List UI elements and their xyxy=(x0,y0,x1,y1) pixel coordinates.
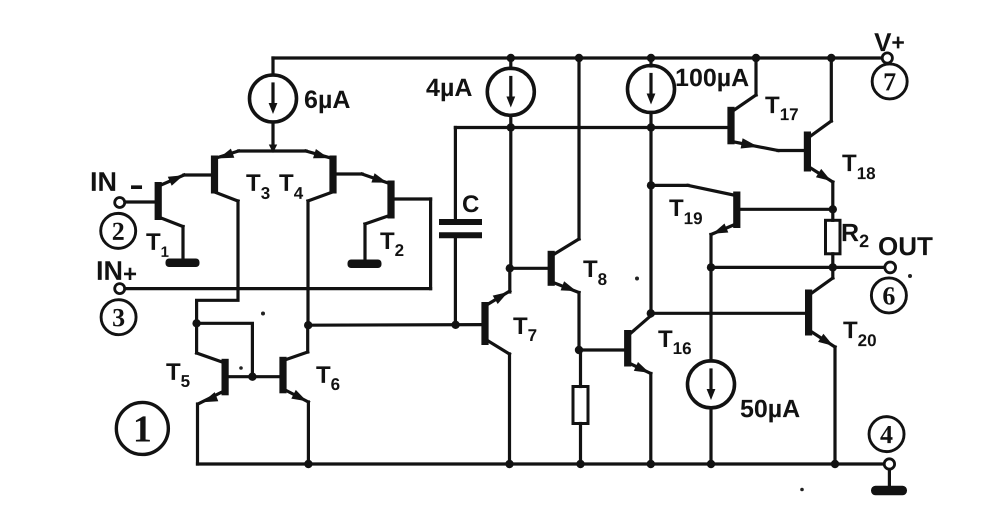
svg-text:6µA: 6µA xyxy=(304,86,350,114)
terminal OUT pin 6 xyxy=(885,262,896,273)
wire diff-pair tail xyxy=(215,151,333,159)
svg-text:T6: T6 xyxy=(316,362,340,394)
node 100uA / T19 collector xyxy=(647,181,655,189)
speck xyxy=(261,312,265,316)
node T8 emitter / T16 base / R xyxy=(575,346,583,354)
speck xyxy=(239,366,243,370)
svg-text:IN: IN xyxy=(90,167,117,197)
node T17 collector on V+ rail xyxy=(752,54,760,62)
transistor T6 xyxy=(279,325,308,464)
wire mid rail to T17 base xyxy=(455,126,727,129)
transistor T18 xyxy=(804,58,833,220)
svg-text:3: 3 xyxy=(112,303,125,332)
wire T2 base to IN+ xyxy=(429,199,432,289)
svg-text:V+: V+ xyxy=(874,27,905,57)
capacitor C xyxy=(442,128,479,325)
node T5 collector junction xyxy=(192,319,200,327)
svg-text:T16: T16 xyxy=(658,326,692,358)
ground at T1 collector xyxy=(166,259,200,268)
node T8 collector on V+ rail xyxy=(575,54,583,62)
svg-text:50µA: 50µA xyxy=(740,395,800,423)
svg-text:6: 6 xyxy=(882,281,895,310)
transistor T5 xyxy=(197,323,280,464)
speck xyxy=(908,274,912,278)
svg-text:T19: T19 xyxy=(669,195,703,228)
svg-text:4µA: 4µA xyxy=(426,74,472,102)
svg-text:T18: T18 xyxy=(842,150,876,183)
node T18 collector on V+ rail xyxy=(827,54,835,62)
resistor (T8 emitter) xyxy=(573,350,588,464)
node T6 collector junction xyxy=(304,321,312,329)
transistor T7 xyxy=(481,268,509,464)
svg-text:4: 4 xyxy=(880,420,893,449)
node T7 emitter on ground rail xyxy=(505,460,513,468)
node resistor bottom on ground rail xyxy=(576,460,584,468)
svg-text:R2: R2 xyxy=(841,219,869,251)
wire OUT xyxy=(711,266,885,269)
svg-text:100µA: 100µA xyxy=(675,64,749,92)
svg-text:1: 1 xyxy=(133,408,152,450)
svg-text:T4: T4 xyxy=(279,170,304,203)
node T16 collector junction xyxy=(647,309,655,317)
terminal IN- xyxy=(115,198,125,208)
svg-text:IN+: IN+ xyxy=(96,256,137,288)
svg-text:T7: T7 xyxy=(513,313,537,345)
wire second-stage base net xyxy=(308,323,482,327)
svg-text:T20: T20 xyxy=(843,317,877,350)
node T19 emitter on OUT wire xyxy=(707,263,715,271)
node 50uA bottom on ground rail xyxy=(707,460,715,468)
node circle pin 1 xyxy=(116,402,168,454)
current source 4uA xyxy=(487,54,534,268)
ground symbol at pin 4 xyxy=(871,486,907,496)
node circle pin 2 xyxy=(101,213,136,248)
svg-text:OUT: OUT xyxy=(878,231,933,261)
wire T7 collector to T8 base xyxy=(510,267,548,270)
node T7 collector / T8 base xyxy=(506,264,514,272)
terminal pin 4 with ground xyxy=(884,459,894,487)
current source 100uA xyxy=(628,54,675,314)
svg-text:7: 7 xyxy=(883,67,896,96)
wire T8 emitter to T16 base xyxy=(579,348,625,351)
node R2 bottom / T20 collector / OUT xyxy=(829,263,837,271)
wire T4 collector to T6/T7 node xyxy=(306,201,309,325)
node circle pin 6 xyxy=(871,278,906,313)
svg-text:T1: T1 xyxy=(146,229,169,261)
svg-text:T17: T17 xyxy=(765,92,799,124)
transistor T16 xyxy=(624,313,651,464)
transistor T1 xyxy=(125,175,184,259)
svg-text:2: 2 xyxy=(112,217,125,246)
node T16 emitter on ground rail xyxy=(647,460,655,468)
current source 50uA xyxy=(688,267,735,464)
node circle pin 7 xyxy=(872,64,907,99)
svg-text:T5: T5 xyxy=(166,359,190,391)
transistor T19 xyxy=(651,185,833,267)
wire bottom ground rail xyxy=(198,462,885,465)
transistor T20 xyxy=(651,267,835,464)
transistor T4 xyxy=(308,149,362,201)
current source 6uA xyxy=(250,58,297,153)
node circle pin 3 xyxy=(101,300,136,335)
node T20 emitter on ground rail xyxy=(831,460,839,468)
terminal V+ pin 7 xyxy=(882,53,892,63)
node base tie T5 T6 xyxy=(248,373,256,381)
svg-text:T8: T8 xyxy=(583,256,607,289)
svg-text:T2: T2 xyxy=(380,228,404,260)
terminal IN+ xyxy=(115,284,431,294)
transistor T17 xyxy=(727,58,804,151)
transistor T3 xyxy=(184,149,238,201)
node circle pin 4 xyxy=(869,417,904,452)
transistor T8 xyxy=(548,58,579,350)
ground at T2 collector xyxy=(348,260,382,269)
transistor T2 xyxy=(362,173,431,260)
svg-text:T3: T3 xyxy=(246,170,270,203)
speck xyxy=(635,277,639,281)
svg-text:C: C xyxy=(462,191,479,218)
node compensation cap tap xyxy=(451,321,459,329)
wire T5 collector diode tie to bases xyxy=(197,323,253,376)
wire top V+ rail xyxy=(273,56,882,59)
speck xyxy=(800,488,804,492)
wire T3 collector to T5 xyxy=(197,201,238,323)
resistor R2 xyxy=(826,220,841,267)
node T6 emitter on ground rail xyxy=(304,460,312,468)
node T18 emitter / T19 base / R2 top xyxy=(829,205,837,213)
